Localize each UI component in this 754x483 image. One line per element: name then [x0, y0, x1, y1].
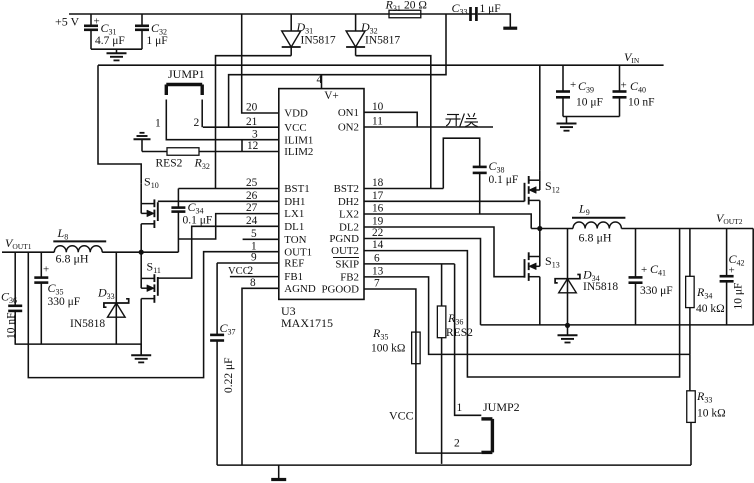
node LX2 switch junction: [537, 226, 542, 231]
resistor R32 RES2: [142, 148, 279, 156]
svg-text:24: 24: [246, 215, 258, 227]
svg-text:IN5817: IN5817: [301, 35, 336, 47]
svg-text:DH1: DH1: [284, 196, 305, 208]
wire V+ feed from rail: [229, 14, 446, 127]
svg-text:PGOOD: PGOOD: [321, 284, 359, 296]
capacitor C38: [473, 167, 487, 214]
ground below C39 C40: [557, 117, 577, 131]
ground below D34: [558, 325, 578, 342]
svg-text:IN5818: IN5818: [70, 318, 105, 330]
svg-text:17: 17: [372, 190, 384, 202]
svg-text:V+: V+: [324, 90, 339, 102]
diode D31 IN5817: [282, 14, 301, 56]
capacitor C34: [171, 189, 185, 253]
svg-text:JUMP2: JUMP2: [483, 400, 520, 414]
svg-text:4.7 μF: 4.7 μF: [95, 35, 125, 47]
svg-text:18: 18: [372, 177, 384, 189]
wire SKIP to JUMP2 pin1: [455, 264, 482, 415]
wire switch node to C34: [141, 251, 178, 253]
capacitor C31: [84, 14, 98, 49]
svg-text:RES2: RES2: [446, 327, 473, 339]
wire DH2 pin 17 to S12 gate: [364, 200, 525, 202]
transistor S13: [525, 229, 560, 325]
svg-text:DL1: DL1: [284, 221, 304, 233]
svg-text:+: +: [729, 265, 735, 277]
ground below S11: [131, 344, 151, 362]
svg-text:22: 22: [372, 227, 384, 239]
svg-text:VDD: VDD: [284, 108, 308, 120]
svg-text:10 μF: 10 μF: [576, 97, 603, 109]
svg-text:14: 14: [372, 239, 384, 251]
wire ILIM1 ILIM2 tie: [241, 140, 243, 152]
svg-text:+: +: [94, 16, 100, 28]
svg-text:OUT2: OUT2: [331, 245, 359, 257]
svg-text:FB2: FB2: [340, 272, 359, 284]
wire OUT1 sense: [28, 252, 278, 378]
svg-text:SKIP: SKIP: [335, 259, 359, 271]
svg-text:1: 1: [155, 118, 161, 130]
wire REF pin 9 to C37: [217, 262, 279, 264]
svg-text:10 μF: 10 μF: [733, 283, 745, 310]
wire R31 to C33: [421, 13, 469, 15]
diode D32 IN5817: [346, 14, 365, 56]
label on/off control (kai/guan): [446, 115, 461, 127]
IC U3 left pin names: [284, 108, 316, 295]
svg-text:12: 12: [247, 140, 259, 152]
ground below C31 C32: [107, 49, 127, 60]
svg-text:10 kΩ: 10 kΩ: [697, 408, 726, 420]
wire DH1 pin 26 to S10 gate: [158, 200, 279, 202]
capacitor C37: [210, 263, 224, 465]
wire FB1 pin 2 stub: [230, 276, 279, 278]
wire VOUT2 right edge drop: [752, 229, 754, 326]
IC U3 MAX1715 body: [279, 89, 364, 300]
svg-text:+: +: [43, 264, 49, 276]
svg-text:AGND: AGND: [284, 283, 316, 295]
wire DL1 pin 24 to S11 gate: [158, 226, 279, 278]
jumper JUMP2: [481, 419, 492, 453]
inductor L8: [53, 241, 106, 252]
svg-text:10: 10: [372, 101, 384, 113]
wire BST2 pin 18: [364, 188, 443, 190]
wire AGND pin 8: [242, 288, 279, 465]
resistor R34: [686, 229, 695, 355]
wire BST2 to C38 top: [443, 138, 479, 188]
svg-text:100 kΩ: 100 kΩ: [371, 343, 405, 355]
svg-text:6.8 μH: 6.8 μH: [579, 231, 612, 245]
wire OUT2 sense: [364, 229, 680, 378]
wire SKIP pin 6: [364, 263, 455, 265]
svg-text:REF: REF: [284, 258, 304, 270]
capacitor C32: [135, 14, 149, 49]
svg-text:BST2: BST2: [334, 183, 359, 195]
jumper JUMP1: [166, 67, 204, 95]
svg-text:3: 3: [252, 128, 258, 140]
svg-text:330 μF: 330 μF: [640, 285, 673, 297]
svg-text:JUMP1: JUMP1: [168, 67, 205, 81]
wire C33 to ground: [478, 14, 511, 27]
svg-text:9: 9: [251, 252, 257, 264]
wire TON pin 5 stub: [243, 238, 279, 240]
wire VIN to S10 drain: [98, 65, 141, 184]
svg-text:VCC: VCC: [228, 266, 250, 277]
resistor R35: [412, 332, 421, 364]
wire VDD pin 20: [242, 14, 279, 113]
wire VCC pin 21: [203, 126, 279, 128]
wire VIN rail: [98, 64, 664, 66]
svg-text:5: 5: [251, 228, 257, 240]
IC U3 right pin names: [321, 107, 359, 296]
capacitor C39: [556, 65, 570, 116]
transistor S11: [141, 252, 161, 355]
svg-text:13: 13: [372, 266, 384, 278]
wire DL2 pin 19 to S13 gate: [364, 227, 525, 277]
diode D33 IN5818: [104, 252, 129, 344]
svg-text:ON2: ON2: [338, 122, 359, 134]
wire R34 to R33: [689, 354, 691, 390]
transistor S12: [525, 170, 560, 228]
capacitor C40: [613, 65, 627, 116]
svg-text:7: 7: [374, 278, 380, 290]
svg-text:6.8 μH: 6.8 μH: [56, 252, 89, 266]
wire FB2 pin 13 to divider: [364, 277, 690, 355]
svg-text:ILIM2: ILIM2: [284, 146, 313, 158]
wire C39 C40 bottom join: [563, 116, 620, 118]
wire D31 cathode to BST1 vertical: [216, 56, 292, 189]
wire LX2 pin 16: [364, 214, 531, 229]
ground at bottom bus: [271, 465, 286, 479]
svg-text:IN5818: IN5818: [583, 281, 618, 293]
svg-text:DL2: DL2: [339, 222, 359, 234]
svg-text:19: 19: [372, 216, 384, 228]
capacitor C33: [469, 7, 476, 21]
transistor S10: [141, 175, 158, 253]
capacitor C35: [34, 252, 48, 344]
svg-text:20: 20: [246, 102, 258, 114]
wire ON2 on-off line: [364, 126, 493, 128]
svg-text:RES2: RES2: [156, 158, 183, 170]
wire D32 cathode to BST2 vertical: [356, 56, 431, 189]
svg-text:6: 6: [374, 253, 380, 265]
resistor R31: [389, 10, 421, 18]
svg-text:27: 27: [246, 202, 258, 214]
wire VOUT2 rail: [621, 228, 753, 230]
svg-text:LX2: LX2: [339, 209, 359, 221]
svg-text:8: 8: [250, 277, 256, 289]
svg-text:1: 1: [457, 402, 463, 414]
wire bottom ground bus: [217, 464, 691, 466]
svg-text:1: 1: [251, 240, 257, 252]
svg-text:VCC: VCC: [389, 409, 414, 423]
ground at R32: [134, 133, 151, 152]
svg-text:0.22 μF: 0.22 μF: [223, 357, 235, 393]
svg-text:+5 V: +5 V: [55, 15, 80, 29]
wire R35 to VCC JUMP2 pin2: [416, 364, 482, 453]
svg-text:1 μF: 1 μF: [480, 3, 501, 15]
svg-text:VCC: VCC: [284, 122, 306, 134]
svg-text:10 nF: 10 nF: [628, 97, 655, 109]
inductor L9: [572, 218, 625, 229]
svg-text:330 μF: 330 μF: [48, 296, 81, 308]
svg-text:DH2: DH2: [338, 196, 359, 208]
wire PGOOD pin 7 to R35: [364, 289, 416, 332]
svg-text:2: 2: [454, 438, 460, 450]
svg-text:LX1: LX1: [284, 208, 304, 220]
svg-text:BST1: BST1: [284, 183, 309, 195]
svg-text:40 kΩ: 40 kΩ: [696, 303, 725, 315]
wire L8 to switch node: [102, 251, 141, 253]
svg-text:+: +: [641, 264, 647, 276]
svg-text:26: 26: [246, 190, 258, 202]
wire PGND pin 22 to ground bus: [364, 239, 481, 325]
node LX1 switch junction: [139, 250, 144, 255]
svg-text:OUT1: OUT1: [284, 246, 312, 258]
svg-text:+: +: [621, 80, 627, 92]
svg-text:25: 25: [246, 177, 258, 189]
wire C31 C32 bottom join: [91, 48, 142, 50]
svg-text:16: 16: [372, 203, 384, 215]
svg-text:IN5817: IN5817: [365, 35, 400, 47]
svg-text:0.1 μF: 0.1 μF: [183, 215, 213, 227]
svg-text:MAX1715: MAX1715: [281, 316, 333, 330]
svg-text:TON: TON: [284, 234, 306, 246]
svg-text:2: 2: [194, 117, 200, 129]
wire JUMP1 pin2 to VCC: [201, 100, 203, 128]
svg-text:ILIM1: ILIM1: [284, 134, 313, 146]
ground after C33: [503, 27, 517, 30]
svg-text:ON1: ON1: [338, 107, 359, 119]
wire VOUT1 ground bus: [15, 343, 142, 345]
svg-text:10 nF: 10 nF: [6, 312, 18, 339]
wire JUMP1 pin1 to ILIM1: [166, 100, 278, 140]
wire right ground bus: [481, 324, 754, 326]
resistor R33: [687, 391, 696, 465]
svg-text:0.1 μF: 0.1 μF: [489, 174, 519, 186]
node D34 ground junction: [565, 323, 570, 328]
wire LX1 pin 27: [178, 214, 278, 239]
svg-text:1 μF: 1 μF: [147, 35, 168, 47]
svg-text:20 Ω: 20 Ω: [404, 0, 427, 12]
diode D34 IN5818: [555, 229, 580, 326]
wire VOUT1 rail: [2, 251, 54, 253]
capacitor C41: [629, 229, 643, 326]
wire switch node 2: [531, 228, 573, 230]
svg-text:11: 11: [372, 116, 383, 128]
capacitor C36: [8, 252, 22, 344]
svg-text:+: +: [570, 79, 576, 91]
wire +5V rail left segment: [69, 13, 389, 15]
wire VIN to S12 drain: [539, 65, 541, 170]
resistor R36 RES2: [437, 264, 446, 464]
wire ON1 pin 10: [364, 112, 417, 127]
svg-text:FB1: FB1: [284, 271, 303, 283]
svg-text:PGND: PGND: [329, 233, 359, 245]
capacitor C42: [720, 229, 734, 326]
wire BST1 pin 25: [178, 188, 278, 190]
wire V+ pin 4: [321, 75, 323, 89]
svg-text:21: 21: [246, 116, 257, 128]
